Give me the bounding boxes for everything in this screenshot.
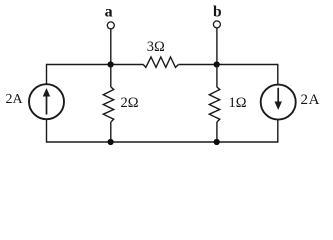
svg-text:a: a — [105, 4, 113, 21]
svg-text:2A: 2A — [301, 92, 321, 108]
wire bottom rail — [47, 141, 278, 143]
junction dot on bottom rail below 2ohm — [108, 139, 114, 145]
label 3 ohm value — [147, 39, 165, 55]
terminal a circle — [107, 22, 114, 29]
terminal b circle — [213, 21, 220, 28]
label node b — [213, 3, 222, 20]
wire right rail lower segment — [277, 120, 279, 143]
wire from 2ohm resistor down to bottom rail — [110, 122, 112, 142]
svg-text:2Ω: 2Ω — [121, 95, 139, 111]
label node a — [105, 4, 113, 21]
label 2A right value — [301, 92, 321, 108]
junction dot node a on top rail — [108, 61, 114, 67]
resistor 2ohm (vertical zigzag) — [103, 87, 113, 122]
wire from 1ohm resistor down to bottom rail — [216, 122, 218, 142]
resistor 3ohm (horizontal zigzag) — [143, 57, 178, 67]
svg-text:1Ω: 1Ω — [229, 95, 247, 111]
svg-text:2A: 2A — [6, 92, 24, 107]
wire top rail right segment — [178, 64, 277, 66]
label 1 ohm value — [229, 95, 247, 111]
wire from node a down to 2ohm resistor — [110, 65, 112, 88]
svg-text:b: b — [213, 3, 222, 20]
label 2A left value — [6, 92, 24, 107]
current source I-left 2A (arrow up) — [29, 84, 64, 119]
wire right rail upper segment — [277, 64, 279, 85]
svg-text:3Ω: 3Ω — [147, 39, 165, 55]
wire left rail upper segment — [46, 64, 48, 84]
wire top rail left segment — [47, 64, 144, 66]
resistor 1ohm (vertical zigzag) — [209, 87, 219, 122]
wire stem from terminal a down to top rail — [110, 29, 112, 65]
wire stem from terminal b down to top rail — [216, 28, 218, 65]
label 2 ohm value — [121, 95, 139, 111]
junction dot node b on top rail — [214, 61, 220, 67]
wire left rail lower segment — [46, 120, 48, 143]
wire from node b down to 1ohm resistor — [216, 65, 218, 88]
current source I-right 2A (arrow down) — [261, 85, 296, 120]
junction dot on bottom rail below 1ohm — [214, 139, 220, 145]
